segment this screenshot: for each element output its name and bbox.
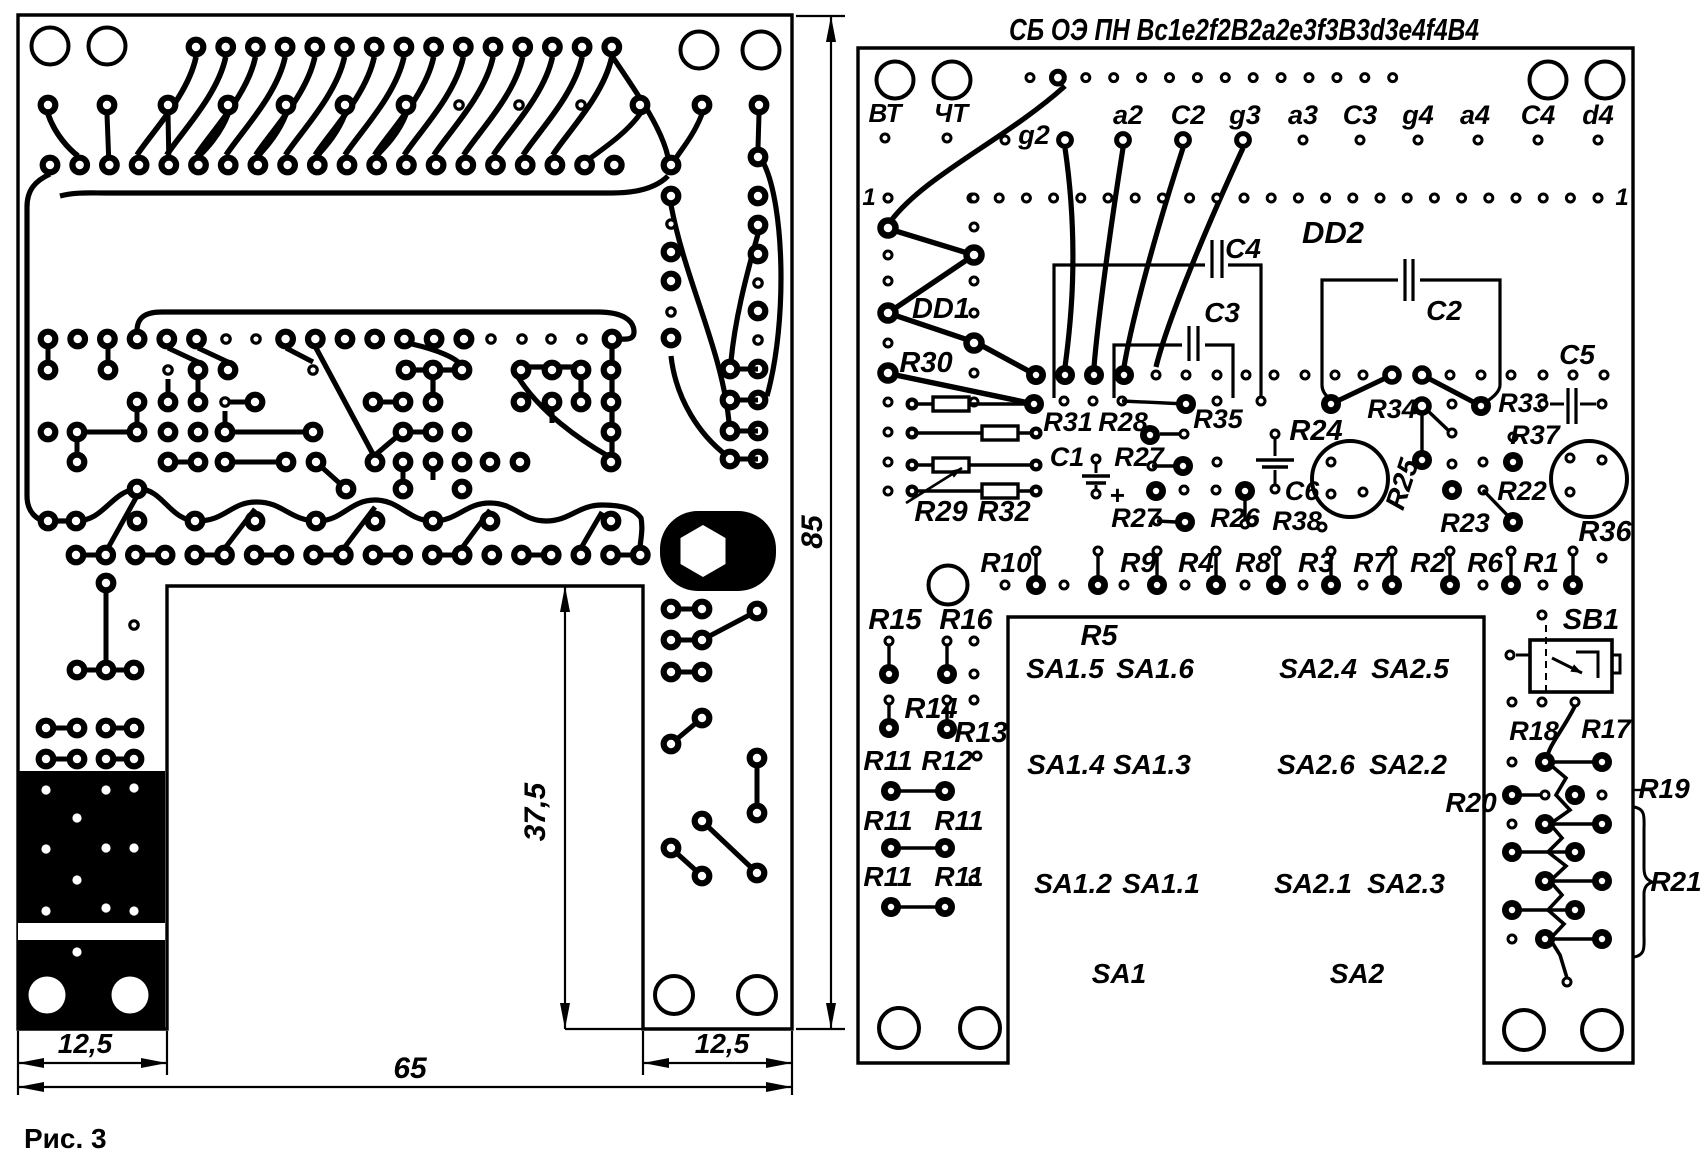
svg-text:С2: С2 xyxy=(1426,295,1462,326)
svg-text:R36: R36 xyxy=(1578,516,1632,548)
svg-text:С6: С6 xyxy=(1285,476,1320,506)
svg-text:R6: R6 xyxy=(1467,547,1503,578)
svg-text:g2: g2 xyxy=(1017,120,1050,150)
svg-text:R9: R9 xyxy=(1120,547,1156,578)
svg-text:SA2.6: SA2.6 xyxy=(1277,749,1355,780)
svg-text:R23: R23 xyxy=(1440,508,1490,538)
svg-text:SA1.4: SA1.4 xyxy=(1027,749,1105,780)
svg-text:R11: R11 xyxy=(863,861,912,892)
svg-text:R10: R10 xyxy=(980,547,1032,578)
svg-text:SA2.4: SA2.4 xyxy=(1279,653,1357,684)
svg-text:С1: С1 xyxy=(1050,442,1085,472)
svg-text:СБ ОЭ ПН Вс1е2f2В2а2е3f3В3d3е4: СБ ОЭ ПН Вс1е2f2В2а2е3f3В3d3е4f4В4 xyxy=(1009,12,1479,47)
svg-text:R16: R16 xyxy=(939,604,993,636)
svg-text:SB1: SB1 xyxy=(1563,604,1619,636)
svg-text:12,5: 12,5 xyxy=(58,1028,113,1059)
svg-text:DD2: DD2 xyxy=(1302,215,1364,250)
svg-text:С5: С5 xyxy=(1559,339,1595,370)
svg-text:R35: R35 xyxy=(1193,404,1244,434)
svg-text:R2: R2 xyxy=(1410,547,1446,578)
svg-text:SA1.6: SA1.6 xyxy=(1116,653,1194,684)
svg-text:R27: R27 xyxy=(1111,503,1163,533)
svg-text:R32: R32 xyxy=(977,496,1030,528)
svg-text:R38: R38 xyxy=(1272,506,1322,536)
svg-text:С4: С4 xyxy=(1521,100,1556,130)
svg-text:R8: R8 xyxy=(1235,547,1271,578)
svg-text:65: 65 xyxy=(393,1052,428,1085)
svg-text:12,5: 12,5 xyxy=(695,1028,750,1059)
svg-text:Рис. 3: Рис. 3 xyxy=(24,1123,107,1154)
svg-text:SA1.3: SA1.3 xyxy=(1113,749,1191,780)
svg-text:R11: R11 xyxy=(863,745,912,776)
svg-text:DD1: DD1 xyxy=(912,293,970,325)
svg-text:SA2.5: SA2.5 xyxy=(1371,653,1449,684)
svg-text:R5: R5 xyxy=(1080,620,1118,652)
svg-text:R17: R17 xyxy=(1581,714,1633,744)
svg-text:SA2: SA2 xyxy=(1330,958,1385,989)
svg-text:R11: R11 xyxy=(934,805,983,836)
svg-text:С2: С2 xyxy=(1171,100,1206,130)
svg-text:85: 85 xyxy=(796,514,829,549)
svg-text:R20: R20 xyxy=(1445,787,1497,818)
svg-text:R18: R18 xyxy=(1509,716,1559,746)
svg-text:R29: R29 xyxy=(914,496,967,528)
svg-text:1: 1 xyxy=(1615,184,1628,211)
svg-text:С4: С4 xyxy=(1225,233,1261,264)
svg-text:d4: d4 xyxy=(1582,100,1614,130)
svg-text:SA1.2: SA1.2 xyxy=(1034,868,1112,899)
svg-text:g4: g4 xyxy=(1401,100,1434,130)
svg-text:g3: g3 xyxy=(1228,100,1261,130)
svg-text:R30: R30 xyxy=(899,347,952,379)
svg-text:а3: а3 xyxy=(1288,100,1318,130)
svg-text:37,5: 37,5 xyxy=(519,781,552,841)
svg-text:R22: R22 xyxy=(1497,476,1547,506)
svg-text:R4: R4 xyxy=(1178,547,1214,578)
svg-text:SA2.2: SA2.2 xyxy=(1369,749,1447,780)
svg-text:R19: R19 xyxy=(1638,773,1690,804)
svg-text:R7: R7 xyxy=(1353,547,1390,578)
svg-text:С3: С3 xyxy=(1204,297,1240,328)
svg-text:SA1.1: SA1.1 xyxy=(1122,868,1200,899)
svg-text:SA1: SA1 xyxy=(1092,958,1146,989)
svg-text:а2: а2 xyxy=(1113,100,1143,130)
svg-text:R3: R3 xyxy=(1298,547,1334,578)
svg-text:R34: R34 xyxy=(1367,394,1417,424)
svg-text:ВТ: ВТ xyxy=(868,98,903,128)
svg-text:SA2.1: SA2.1 xyxy=(1274,868,1352,899)
svg-text:R21: R21 xyxy=(1650,866,1701,897)
svg-text:а4: а4 xyxy=(1460,100,1490,130)
svg-text:R11: R11 xyxy=(863,805,912,836)
svg-text:R15: R15 xyxy=(868,604,922,636)
svg-text:ЧТ: ЧТ xyxy=(934,98,970,128)
svg-text:R1: R1 xyxy=(1523,547,1559,578)
svg-text:R12: R12 xyxy=(921,745,973,776)
svg-text:SA1.5: SA1.5 xyxy=(1026,653,1104,684)
svg-text:С3: С3 xyxy=(1343,100,1378,130)
svg-text:R37: R37 xyxy=(1510,420,1562,450)
svg-text:1: 1 xyxy=(862,184,875,211)
svg-text:SA2.3: SA2.3 xyxy=(1367,868,1445,899)
svg-text:R31: R31 xyxy=(1043,407,1093,437)
